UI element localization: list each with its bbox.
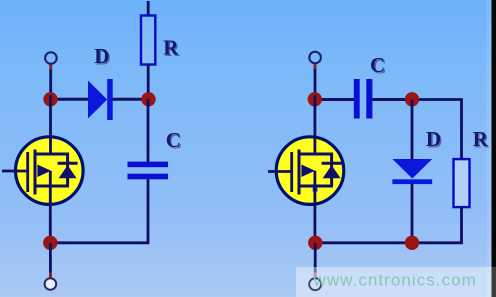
capacitor C top plate (left circuit) xyxy=(128,162,169,168)
MOSFET Q1 inner right link xyxy=(66,154,69,186)
MOSFET Q2 body arrow xyxy=(301,165,315,178)
black crop bar right edge xyxy=(492,0,496,297)
MOSFET Q1 drain wire through body xyxy=(49,95,52,155)
MOSFET Q2 gate bar xyxy=(290,152,293,192)
watermark band xyxy=(296,267,492,297)
capacitor C left plate (right circuit) xyxy=(354,79,360,119)
MOSFET Q2 drain wire through body xyxy=(313,95,316,155)
diode D (right circuit) triangle xyxy=(392,159,432,179)
MOSFET Q1 body arrow xyxy=(37,165,51,178)
wire: bottom rail right circuit xyxy=(315,241,463,244)
junction J2 xyxy=(141,92,155,106)
wire: J7 to bottom terminal right xyxy=(314,243,317,278)
MOSFET Q2 gate lead xyxy=(268,170,293,173)
MOSFET Q2 source wire through body xyxy=(313,171,316,243)
junction J5 xyxy=(405,92,419,106)
MOSFET Q2 body circle xyxy=(276,137,344,205)
resistor R (right circuit) xyxy=(454,159,470,207)
MOSFET Q1 body-diode cathode bar xyxy=(58,162,78,165)
wire: J3 to bottom terminal xyxy=(49,243,52,278)
MOSFET Q2 drain stub xyxy=(299,153,333,156)
svg-text:D: D xyxy=(94,44,109,68)
MOSFET Q2 source node marker xyxy=(313,187,318,192)
wire: capacitor C right plate to junction J5 xyxy=(372,98,412,101)
wire: top edge to resistor R xyxy=(147,1,150,16)
wire: top terminal to junction J4 xyxy=(314,64,317,96)
terminal (open circle) top right xyxy=(309,52,321,64)
wire: bottom rail J3 to capacitor branch xyxy=(50,241,149,244)
MOSFET Q2 body-diode triangle xyxy=(323,165,341,178)
svg-text:www.cntronics.com: www.cntronics.com xyxy=(313,271,477,290)
capacitor C right plate (right circuit) xyxy=(366,79,372,119)
terminal pin tick (red) bottom xyxy=(49,273,52,279)
MOSFET Q1 gate lead xyxy=(2,170,29,173)
diode D (left circuit) triangle xyxy=(88,81,107,119)
terminal pin tick (red) top right xyxy=(314,64,317,70)
MOSFET Q1 gate bar xyxy=(26,152,29,192)
terminal (open circle) bottom right xyxy=(309,278,321,290)
MOSFET Q1 drain stub xyxy=(35,153,69,156)
wire: diode D cathode to junction J6 xyxy=(411,184,414,243)
junction J7 (source / bottom rail right) xyxy=(308,236,322,250)
MOSFET Q2 channel bar xyxy=(298,150,301,195)
resistor R (left circuit) xyxy=(141,16,155,65)
wire: top terminal to junction J1 xyxy=(49,64,52,95)
terminal (open circle) bottom left xyxy=(45,278,57,290)
wire: J5 down to diode D anode xyxy=(411,100,414,161)
wire: J1 to diode D anode xyxy=(50,98,89,101)
MOSFET Q1 channel bar xyxy=(34,150,37,195)
MOSFET Q1 body circle xyxy=(16,137,84,205)
wire: resistor R to junction J2 xyxy=(147,65,150,100)
MOSFET Q2 source stub xyxy=(299,185,333,188)
wire: J4 to capacitor C left plate xyxy=(314,98,354,101)
diode D cathode bar xyxy=(107,79,113,120)
wire: J5 to resistor branch corner xyxy=(412,98,462,101)
junction J1 xyxy=(43,92,57,106)
wire: resistor R bottom to bottom rail corner xyxy=(460,207,463,243)
terminal pin tick (red) bottom right xyxy=(314,273,317,279)
svg-text:D: D xyxy=(426,127,441,151)
light strip left of black bar xyxy=(487,0,492,297)
capacitor C bottom plate (left circuit) xyxy=(128,174,169,180)
junction J6 xyxy=(405,236,419,250)
MOSFET Q1 body-diode triangle xyxy=(59,165,77,178)
MOSFET Q2 body-diode cathode bar xyxy=(322,162,342,165)
wire: J2 down to capacitor C top plate xyxy=(147,99,150,162)
MOSFET Q1 source stub xyxy=(35,185,69,188)
svg-text:C: C xyxy=(370,53,385,77)
MOSFET Q1 source wire through body xyxy=(49,171,52,243)
junction J4 xyxy=(308,92,322,106)
svg-text:R: R xyxy=(163,36,179,60)
junction J3 (source / bottom rail) xyxy=(43,236,57,250)
diode D cathode bar (right) xyxy=(392,179,432,184)
wire: corner down to resistor R top xyxy=(460,98,463,159)
wire: diode cathode to junction J2 xyxy=(113,98,149,101)
svg-text:R: R xyxy=(473,127,489,151)
terminal pin tick (red) top xyxy=(49,64,52,70)
wire: capacitor C to bottom rail corner xyxy=(147,179,150,243)
terminal (open circle) top left xyxy=(45,52,57,64)
svg-text:C: C xyxy=(166,128,181,152)
watermark band over crop bar xyxy=(492,267,496,297)
MOSFET Q2 inner right link xyxy=(330,154,333,186)
